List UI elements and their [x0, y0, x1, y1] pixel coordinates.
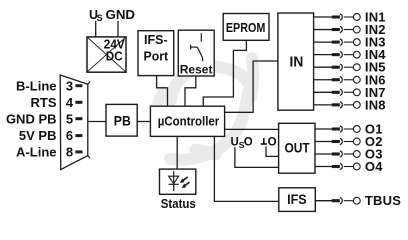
block OUT [279, 123, 315, 173]
svg-text:6: 6 [66, 128, 73, 143]
microcontroller U1 [150, 106, 224, 136]
svg-text:A-Line: A-Line [16, 145, 56, 160]
terminal point IN1 [314, 10, 386, 25]
svg-text:IFS: IFS [287, 192, 307, 207]
wire EPROM to uController [203, 40, 246, 106]
label USO [231, 137, 253, 150]
wire uController to OUT [225, 128, 279, 130]
label US [89, 8, 103, 23]
terminal point O2 [315, 134, 383, 149]
svg-text:Status: Status [161, 197, 196, 211]
svg-text:RTS: RTS [31, 95, 57, 110]
svg-text:OUT: OUT [285, 140, 311, 155]
wire Reset to uController [185, 76, 196, 106]
svg-text:EPROM: EPROM [226, 20, 266, 35]
svg-text:S: S [97, 13, 103, 23]
svg-text:GND: GND [106, 7, 136, 22]
terminal point O1 [315, 122, 383, 137]
svg-text:O: O [244, 137, 253, 149]
status LED indicator [160, 169, 196, 211]
block EPROM [223, 14, 269, 41]
terminal point IN8 [314, 97, 386, 112]
wire uController to IN [225, 61, 278, 112]
connector pin 5 (GND PB) [6, 111, 82, 126]
block IFS [279, 188, 316, 212]
connector pin 8 (A-Line) [16, 145, 82, 160]
terminal point IN2 [314, 22, 386, 37]
terminal point IN3 [314, 35, 386, 50]
svg-text:B-Line: B-Line [16, 78, 56, 93]
svg-text:U: U [231, 137, 239, 149]
svg-text:3: 3 [66, 78, 73, 93]
terminal point TBUS [315, 193, 401, 208]
svg-text:IN: IN [290, 54, 304, 71]
terminal point IN4 [314, 47, 387, 62]
svg-text:O4: O4 [365, 159, 383, 174]
block Reset with pushbutton switch [178, 30, 214, 76]
wire USO to OUT [235, 147, 279, 167]
wire uController to Status [176, 136, 178, 169]
terminal point IN5 [314, 60, 386, 75]
svg-text:5V PB: 5V PB [19, 128, 57, 143]
wire uController to IFS [214, 136, 278, 201]
watermark [157, 58, 253, 160]
label ground O [261, 137, 277, 149]
svg-text:5: 5 [66, 111, 73, 126]
terminal point IN7 [314, 85, 386, 100]
svg-text:4: 4 [66, 95, 74, 110]
svg-text:Port: Port [144, 48, 169, 63]
svg-text:µController: µController [158, 114, 220, 128]
wire IFS-Port to uController [157, 76, 168, 107]
terminal point IN6 [314, 72, 386, 87]
svg-text:PB: PB [114, 112, 131, 128]
connector pin 4 (RTS) [31, 95, 83, 110]
wire PB to uController [137, 121, 150, 123]
block IFS-Port [138, 31, 174, 76]
block PB [106, 104, 137, 136]
wire GND supply [117, 21, 119, 37]
wire ground-O to OUT [266, 146, 279, 156]
svg-text:DC: DC [106, 48, 123, 63]
svg-text:8: 8 [66, 145, 73, 160]
svg-text:IFS-: IFS- [144, 32, 168, 47]
svg-text:O: O [268, 137, 277, 149]
connector pin 3 (B-Line) [16, 78, 82, 93]
block IN [278, 13, 314, 110]
terminal point O4 [315, 159, 383, 174]
wire connector pin5 to PB [88, 121, 106, 123]
terminal point O3 [315, 147, 383, 162]
svg-text:TBUS: TBUS [365, 193, 401, 208]
svg-text:GND PB: GND PB [6, 111, 57, 126]
D-SUB connector housing [60, 75, 90, 170]
power supply 24V DC [87, 36, 126, 72]
svg-text:IN8: IN8 [365, 97, 386, 112]
connector pin 6 (5V PB) [19, 128, 82, 143]
wire US supply [95, 21, 97, 37]
svg-text:Reset: Reset [180, 63, 213, 77]
